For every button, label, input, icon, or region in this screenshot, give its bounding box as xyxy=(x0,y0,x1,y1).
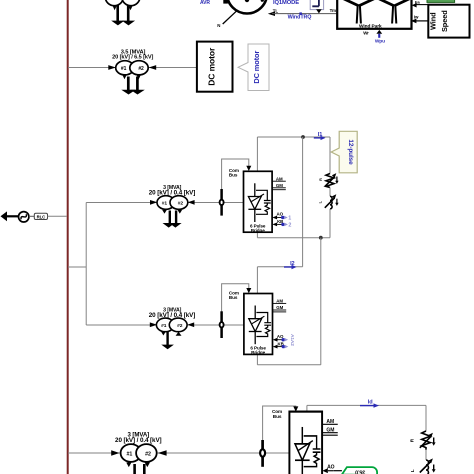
svg-text:Bus: Bus xyxy=(229,295,238,300)
svg-text:N: N xyxy=(217,23,220,28)
wind turbine 2 tower xyxy=(392,6,396,24)
source ES circle xyxy=(19,212,29,222)
current arrow I2 xyxy=(284,265,297,269)
svg-text:20 [kV] / 0.4 [kV]: 20 [kV] / 0.4 [kV] xyxy=(149,312,196,319)
transformer T1 winding 1 xyxy=(116,61,134,75)
transformer T1 winding 2 xyxy=(130,61,148,75)
transformer T3 winding 2 xyxy=(169,318,187,332)
transformer T2 ground stem 1 xyxy=(169,211,171,224)
bridge U1 KB feed arrow xyxy=(284,223,288,227)
wire between R2 L2 xyxy=(425,450,427,460)
transformer T4 winding arrow 1 xyxy=(126,463,131,468)
variable resistor R1 xyxy=(325,173,337,187)
breaker BRK3 xyxy=(260,440,265,467)
bridge U2 riser top xyxy=(256,267,258,294)
variable inductor L2 xyxy=(420,458,433,474)
label Com Bus 3 xyxy=(272,409,282,419)
transformer T0 ground arrow 1 xyxy=(111,21,124,26)
transformer T1 ground arrow 2 xyxy=(130,90,145,95)
svg-text:L: L xyxy=(410,469,415,472)
bridge U1 riser bottom xyxy=(256,232,258,238)
svg-text:RLC: RLC xyxy=(37,215,46,220)
bridge U2 riser bottom xyxy=(256,354,258,365)
6 pulse bridge U3 xyxy=(289,412,337,474)
svg-text:#1: #1 xyxy=(161,323,167,329)
svg-text:2: 2 xyxy=(288,223,291,229)
svg-text:Id: Id xyxy=(368,400,373,406)
bridge U2 AO feed arrow xyxy=(284,338,288,342)
dc link wire top (I1) xyxy=(257,136,330,138)
machine W shaft dot xyxy=(245,0,249,2)
combus tap 3 xyxy=(263,406,296,440)
L1 set arrow xyxy=(335,199,338,206)
bus 20kV (red busbar) xyxy=(67,0,69,474)
transformer T1 winding arrow 2 xyxy=(137,75,141,79)
R2 set arrow xyxy=(432,438,436,446)
wind park Ea pin arrow xyxy=(412,3,417,7)
svg-text:#1: #1 xyxy=(127,451,133,457)
transformer T0 ground arrow 2 xyxy=(122,21,135,26)
label Com Bus 1 xyxy=(229,168,239,178)
dc link wire mid xyxy=(257,237,330,239)
transformer T2 winding 2 xyxy=(170,196,188,210)
wire R1 branch vertical top xyxy=(329,137,331,174)
breaker BRK1 xyxy=(220,189,224,216)
svg-text:WindTRQ: WindTRQ xyxy=(288,15,312,21)
transformer T2 winding arrow 2 xyxy=(177,210,182,214)
callout 12-pulse xyxy=(331,131,357,173)
wire branch riser vertical xyxy=(85,203,87,326)
svg-text:AVR: AVR xyxy=(200,0,210,6)
wire Id down xyxy=(425,405,427,431)
machine W torque arrow xyxy=(268,11,275,16)
wire branch3 horizontal xyxy=(68,452,289,454)
transformer T0 winding arrow 2 xyxy=(129,6,133,10)
bridge U1 KB node dot xyxy=(281,223,284,226)
transformer T2 right lead arrow xyxy=(188,200,195,205)
variable inductor L1 xyxy=(325,194,337,209)
svg-text:35.0: 35.0 xyxy=(355,468,365,474)
wire RLC to bus xyxy=(48,215,67,217)
combus arrow 1 xyxy=(246,166,251,171)
Wpu stub xyxy=(378,34,380,38)
svg-text:Wind Park: Wind Park xyxy=(359,24,382,30)
wire Iw xyxy=(416,20,429,22)
svg-text:1: 1 xyxy=(288,216,291,222)
svg-text:Wr: Wr xyxy=(363,30,369,35)
dc link wire bottom return xyxy=(257,364,320,366)
transformer T0 ground stem 1 xyxy=(116,6,119,22)
bridge U1 AO feed arrow xyxy=(284,216,288,220)
wire machine to wind park (Tm) xyxy=(272,13,337,15)
transformer T1 ground stem 2 xyxy=(136,77,139,91)
svg-text:20 [kV] / 6.5 [kV]: 20 [kV] / 6.5 [kV] xyxy=(112,55,153,61)
transformer T4 ground stem 2 xyxy=(143,464,146,474)
wire mid junction down xyxy=(320,238,322,365)
wind turbine 1 tower xyxy=(357,6,361,24)
slider output arrow xyxy=(316,9,322,13)
bridge U2 KB feed arrow xyxy=(285,345,289,349)
transformer T3 winding 1 xyxy=(156,318,174,332)
wind park Wr pin arrow xyxy=(376,30,382,34)
svg-text:DC motor: DC motor xyxy=(252,51,261,84)
transformer T0 winding 1 (cut at top) xyxy=(105,0,123,6)
transformer T4 winding 1 xyxy=(121,444,142,462)
svg-text:Iw: Iw xyxy=(414,14,419,19)
wire I1 junction down xyxy=(302,137,304,267)
svg-text:Wind: Wind xyxy=(428,12,437,30)
wire bus to T1 xyxy=(68,67,197,69)
transformer T4 right lead arrow xyxy=(158,450,167,455)
svg-text:#1: #1 xyxy=(121,66,127,72)
current arrow I1 xyxy=(314,136,326,140)
svg-text:L: L xyxy=(319,200,323,203)
transformer T0 ground stem 2 xyxy=(127,6,130,22)
transformer T1 ground arrow 1 xyxy=(121,90,136,95)
transformer T1 right lead arrow xyxy=(149,65,157,70)
source ES arrow xyxy=(1,211,19,221)
machine W right pin dot xyxy=(261,0,264,2)
transformer T2 left lead arrow xyxy=(150,200,157,205)
svg-text:Bus: Bus xyxy=(273,414,282,419)
wind speed source block xyxy=(428,5,469,38)
bridge U1 riser top xyxy=(256,137,258,171)
slider block xyxy=(310,0,323,10)
transformer T3 ground arrow xyxy=(161,345,174,350)
wire bus to branch riser xyxy=(68,266,86,268)
svg-text:#2: #2 xyxy=(177,323,183,329)
transformer T0 winding 2 xyxy=(122,0,140,6)
green control panel (cut) xyxy=(427,0,455,2)
RLC impedance block xyxy=(34,213,47,219)
node junction mid xyxy=(319,236,323,240)
wire branch1 horizontal xyxy=(86,202,243,204)
transformer T3 winding arrow down xyxy=(161,332,166,336)
L2 set arrow xyxy=(432,465,436,473)
transformer T4 ground stem 1 xyxy=(133,464,136,474)
bridge U2 KB node dot xyxy=(282,345,285,348)
svg-text:R: R xyxy=(410,438,415,442)
dc wire Id xyxy=(307,404,426,406)
svg-text:Speed: Speed xyxy=(440,10,449,32)
transformer T1 ground stem 1 xyxy=(127,77,130,91)
wind turbine 2 blades xyxy=(377,0,411,6)
callout DC motor xyxy=(238,44,269,91)
machine W neutral lead xyxy=(223,10,238,24)
combus arrow 3 xyxy=(293,406,298,411)
transformer T3 ground stem xyxy=(166,332,168,346)
svg-text:R: R xyxy=(319,178,323,181)
label Com Bus 2 xyxy=(229,290,239,300)
transformer T2 winding arrow 1 xyxy=(162,210,167,214)
bridge U2 AO node dot xyxy=(281,338,284,341)
transformer T2 winding 1 xyxy=(157,196,175,210)
transformer T3 delta arrow up xyxy=(176,332,182,336)
breaker BRK2 xyxy=(220,311,224,338)
transformer T0 winding arrow 1 xyxy=(113,6,117,10)
current arrow Id xyxy=(360,403,379,407)
6 pulse bridge U2 xyxy=(244,294,286,356)
svg-text:DC motor: DC motor xyxy=(207,47,217,86)
transformer T2 ground arrow 2 xyxy=(169,223,181,228)
transformer T2 ground stem 2 xyxy=(175,211,177,224)
node junction I1 xyxy=(301,135,305,139)
combus arrow 2 xyxy=(246,288,251,293)
svg-text:#1: #1 xyxy=(162,200,168,206)
wire between R1 L1 xyxy=(329,188,331,197)
transformer T1 left lead arrow xyxy=(108,65,116,70)
transformer T4 winding arrow 2 xyxy=(145,463,150,468)
svg-text:20 [kV] / 0.4 [kV]: 20 [kV] / 0.4 [kV] xyxy=(115,437,162,444)
transformer T4 winding 2 xyxy=(136,444,157,462)
combus tap 1 xyxy=(222,159,249,202)
wind park block xyxy=(337,0,411,29)
bridge U1 AO node dot xyxy=(281,216,284,219)
dc link wire I2 xyxy=(257,266,302,268)
DC motor block M1 xyxy=(197,42,233,92)
svg-text:Bus: Bus xyxy=(229,173,238,178)
transformer T4 left lead arrow xyxy=(111,450,119,455)
wind turbine 1 blades xyxy=(342,0,376,6)
svg-text:20 [kV] / 0.4 [kV]: 20 [kV] / 0.4 [kV] xyxy=(149,190,196,197)
node WindTRQ dot xyxy=(299,12,302,15)
wire Ea xyxy=(416,4,428,6)
wire branch2 horizontal xyxy=(86,324,244,326)
machine W left pin xyxy=(223,0,228,4)
constant 35.0 xyxy=(333,467,377,474)
transformer T3 right lead arrow xyxy=(187,322,194,327)
6 pulse bridge U1 xyxy=(244,171,286,233)
svg-text:Tm: Tm xyxy=(330,8,337,13)
wind park Iw pin arrow xyxy=(411,19,416,24)
transformer T3 left lead arrow xyxy=(150,322,157,327)
R1 set arrow xyxy=(335,177,338,184)
machine W (cut at top) xyxy=(227,0,267,14)
combus tap 2 xyxy=(222,284,249,312)
svg-text:Wpu: Wpu xyxy=(375,38,385,44)
svg-text:#2: #2 xyxy=(178,200,184,206)
svg-text:A1A2: A1A2 xyxy=(289,334,295,346)
bridge U3 riser top xyxy=(306,405,308,411)
wire source to RLC xyxy=(29,215,34,217)
variable resistor R2 xyxy=(420,431,433,450)
svg-text:IQ1MODE: IQ1MODE xyxy=(273,0,299,6)
svg-text:#2: #2 xyxy=(145,451,151,457)
svg-text:12-pulse: 12-pulse xyxy=(347,139,354,165)
transformer T2 ground arrow 1 xyxy=(163,223,175,228)
transformer T1 winding arrow 1 xyxy=(122,75,126,79)
wire L1 bottom xyxy=(329,209,331,238)
svg-text:#2: #2 xyxy=(138,66,144,72)
